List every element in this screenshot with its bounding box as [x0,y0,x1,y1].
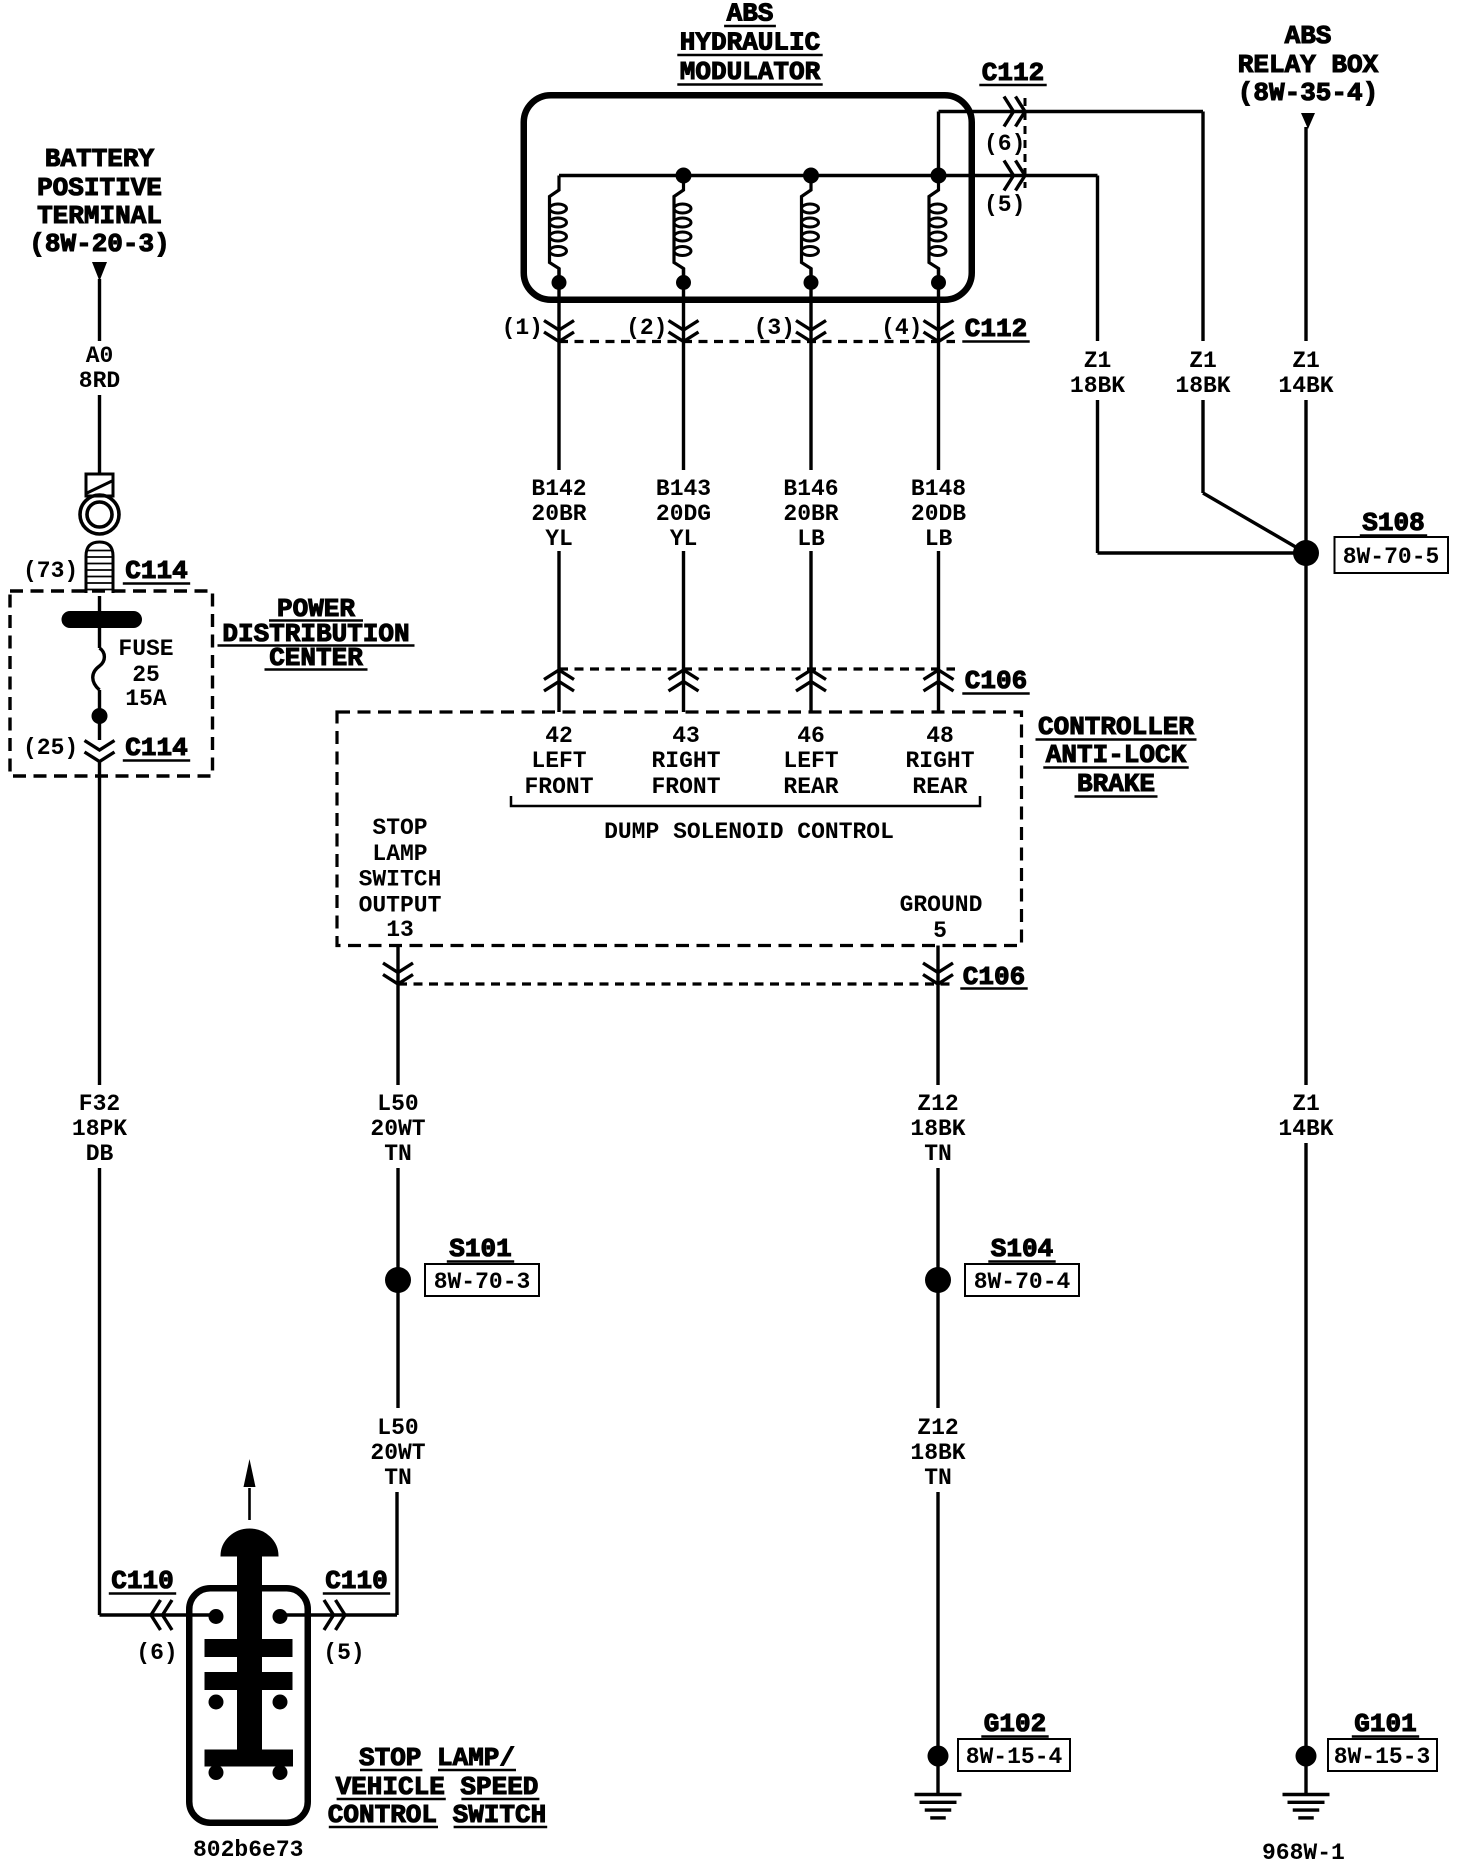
svg-text:20DG: 20DG [656,501,711,527]
svg-text:(25): (25) [23,735,78,761]
svg-text:LB: LB [925,526,953,552]
svg-text:YL: YL [545,526,573,552]
svg-text:S104: S104 [991,1234,1053,1264]
svg-text:(5): (5) [323,1640,364,1666]
svg-text:CONTROLLER: CONTROLLER [1038,712,1194,742]
svg-text:S108: S108 [1362,508,1424,538]
svg-text:ABS: ABS [727,0,774,29]
svg-text:(6): (6) [984,131,1025,157]
svg-text:Z1: Z1 [1189,348,1217,374]
svg-text:20WT: 20WT [370,1116,425,1142]
svg-text:46: 46 [797,723,825,749]
svg-text:BATTERY: BATTERY [45,144,155,174]
svg-text:REAR: REAR [783,774,838,800]
svg-text:STOP: STOP [372,815,427,841]
svg-text:15A: 15A [125,686,167,712]
svg-text:18BK: 18BK [1175,373,1230,399]
svg-text:FRONT: FRONT [524,774,593,800]
svg-text:B142: B142 [531,476,586,502]
svg-text:LAMP: LAMP [372,841,427,867]
svg-text:A0: A0 [86,343,114,369]
svg-text:18BK: 18BK [910,1116,965,1142]
svg-text:RIGHT: RIGHT [905,748,974,774]
svg-text:20WT: 20WT [370,1440,425,1466]
svg-text:8W-70-5: 8W-70-5 [1343,544,1440,570]
svg-text:C110: C110 [325,1566,387,1596]
svg-text:ABS: ABS [1285,21,1332,51]
svg-text:LB: LB [797,526,825,552]
svg-text:8W-70-3: 8W-70-3 [434,1269,531,1295]
svg-text:C110: C110 [111,1566,173,1596]
svg-text:968W-1: 968W-1 [1262,1840,1345,1864]
svg-text:G102: G102 [984,1709,1046,1739]
svg-text:LEFT: LEFT [783,748,838,774]
svg-text:C114: C114 [125,733,187,763]
svg-text:TN: TN [924,1465,952,1491]
svg-text:Z1: Z1 [1292,348,1320,374]
svg-text:TN: TN [384,1141,412,1167]
svg-text:G101: G101 [1354,1709,1416,1739]
svg-text:802b6e73: 802b6e73 [193,1837,303,1863]
svg-text:(4): (4) [881,315,922,341]
svg-text:20BR: 20BR [531,501,586,527]
svg-text:POSITIVE: POSITIVE [37,173,162,203]
svg-text:STOP LAMP/: STOP LAMP/ [359,1743,515,1773]
svg-text:ANTI-LOCK: ANTI-LOCK [1046,740,1187,770]
svg-text:14BK: 14BK [1278,373,1333,399]
svg-text:Z12: Z12 [917,1415,958,1441]
svg-text:25: 25 [132,662,160,688]
svg-text:DUMP SOLENOID CONTROL: DUMP SOLENOID CONTROL [604,819,894,845]
svg-text:(2): (2) [626,315,667,341]
svg-text:8W-70-4: 8W-70-4 [974,1269,1071,1295]
svg-text:MODULATOR: MODULATOR [680,57,821,87]
svg-text:(8W-35-4): (8W-35-4) [1238,78,1378,108]
svg-text:Z1: Z1 [1292,1091,1320,1117]
svg-text:43: 43 [672,723,700,749]
svg-text:CONTROL SWITCH: CONTROL SWITCH [328,1800,546,1830]
svg-text:FUSE: FUSE [118,636,173,662]
svg-text:REAR: REAR [912,774,967,800]
svg-text:18BK: 18BK [1070,373,1125,399]
svg-text:VEHICLE SPEED: VEHICLE SPEED [336,1772,539,1802]
svg-text:B146: B146 [783,476,838,502]
svg-text:OUTPUT: OUTPUT [359,892,442,918]
svg-text:B143: B143 [656,476,711,502]
svg-text:BRAKE: BRAKE [1077,769,1155,799]
svg-text:TN: TN [384,1465,412,1491]
svg-text:Z12: Z12 [917,1091,958,1117]
svg-text:C112: C112 [965,314,1027,344]
svg-text:20BR: 20BR [783,501,838,527]
svg-text:Z1: Z1 [1084,348,1112,374]
svg-text:C114: C114 [125,556,187,586]
svg-text:18PK: 18PK [72,1116,127,1142]
svg-text:(6): (6) [136,1640,177,1666]
svg-text:14BK: 14BK [1278,1116,1333,1142]
svg-text:B148: B148 [911,476,966,502]
svg-text:TN: TN [924,1141,952,1167]
svg-text:SWITCH: SWITCH [359,867,442,893]
svg-text:(1): (1) [502,315,543,341]
svg-text:RIGHT: RIGHT [651,748,720,774]
svg-text:20DB: 20DB [911,501,966,527]
svg-text:F32: F32 [79,1091,120,1117]
svg-text:42: 42 [545,723,573,749]
svg-text:TERMINAL: TERMINAL [37,201,162,231]
svg-text:RELAY BOX: RELAY BOX [1238,50,1379,80]
svg-text:48: 48 [926,723,954,749]
svg-text:L50: L50 [377,1415,418,1441]
svg-text:L50: L50 [377,1091,418,1117]
svg-text:FRONT: FRONT [651,774,720,800]
svg-text:(3): (3) [754,315,795,341]
svg-text:DB: DB [86,1141,114,1167]
svg-text:18BK: 18BK [910,1440,965,1466]
svg-text:C112: C112 [982,58,1044,88]
svg-text:GROUND: GROUND [900,892,983,918]
svg-text:8W-15-4: 8W-15-4 [966,1744,1063,1770]
svg-text:S101: S101 [449,1234,511,1264]
svg-text:YL: YL [670,526,698,552]
svg-text:8W-15-3: 8W-15-3 [1334,1744,1431,1770]
svg-text:LEFT: LEFT [531,748,586,774]
svg-text:HYDRAULIC: HYDRAULIC [680,28,820,58]
svg-text:(8W-20-3): (8W-20-3) [29,229,169,259]
svg-text:5: 5 [933,918,947,944]
svg-text:8RD: 8RD [79,368,120,394]
svg-text:13: 13 [386,917,414,943]
svg-text:(73): (73) [23,558,78,584]
svg-text:C106: C106 [965,666,1027,696]
svg-text:(5): (5) [984,192,1025,218]
